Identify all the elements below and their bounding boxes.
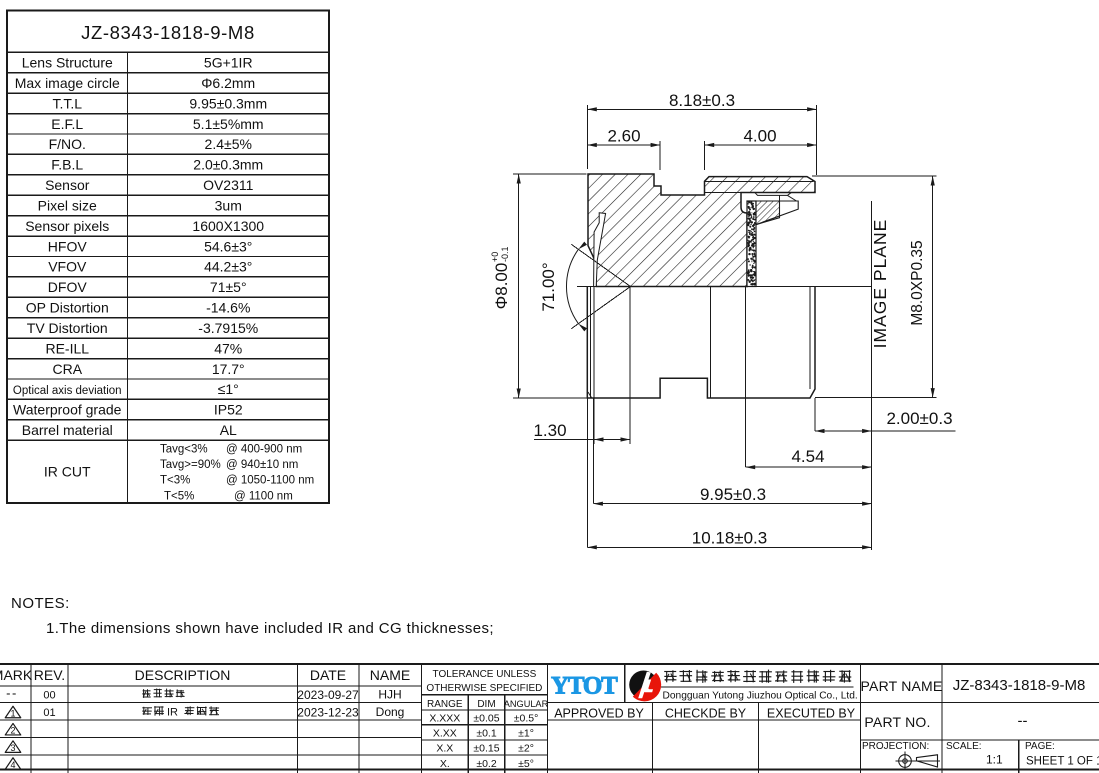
svg-text:1.30: 1.30 <box>533 421 566 440</box>
svg-text:Waterproof grade: Waterproof grade <box>13 402 122 418</box>
svg-text:Φ6.2mm: Φ6.2mm <box>201 75 255 91</box>
svg-text:PART NAME: PART NAME <box>861 678 943 694</box>
svg-text:SHEET 1 OF 1: SHEET 1 OF 1 <box>1026 756 1099 768</box>
svg-text:47%: 47% <box>214 340 242 356</box>
svg-text:3: 3 <box>10 743 15 753</box>
svg-text:9.95±0.3mm: 9.95±0.3mm <box>189 95 267 111</box>
svg-text:JZ-8343-1818-9-M8: JZ-8343-1818-9-M8 <box>953 677 1086 694</box>
svg-text:2.4±5%: 2.4±5% <box>205 136 252 152</box>
svg-text:@ 400-900 nm: @ 400-900 nm <box>226 444 302 456</box>
svg-text:F.B.L: F.B.L <box>51 157 83 173</box>
svg-text:E.F.L: E.F.L <box>51 116 83 132</box>
svg-text:+0: +0 <box>490 252 500 262</box>
svg-text:Dong: Dong <box>376 705 405 719</box>
svg-text:44.2±3°: 44.2±3° <box>204 259 252 275</box>
svg-text:2023-09-27: 2023-09-27 <box>297 688 359 702</box>
svg-text:PROJECTION:: PROJECTION: <box>862 741 929 752</box>
svg-text:HJH: HJH <box>378 688 401 702</box>
svg-text:NAME: NAME <box>370 667 410 683</box>
svg-text:Tavg>=90%: Tavg>=90% <box>160 459 221 471</box>
svg-text:-14.6%: -14.6% <box>206 300 250 316</box>
svg-text:CHECKDE BY: CHECKDE BY <box>665 707 747 721</box>
svg-text:--: -- <box>6 686 18 701</box>
svg-text:OV2311: OV2311 <box>203 177 254 193</box>
svg-text:T<5%: T<5% <box>164 490 194 502</box>
svg-text:17.7°: 17.7° <box>212 361 245 377</box>
svg-text:1600X1300: 1600X1300 <box>192 218 264 234</box>
svg-text:@ 940±10 nm: @ 940±10 nm <box>226 459 298 471</box>
svg-text:TOLERANCE UNLESS: TOLERANCE UNLESS <box>433 669 537 680</box>
svg-text:Max image circle: Max image circle <box>15 75 120 91</box>
svg-text:YTOT: YTOT <box>551 673 618 700</box>
svg-text:8.18±0.3: 8.18±0.3 <box>669 91 735 110</box>
svg-text:T<3%: T<3% <box>160 475 190 487</box>
svg-text:EXECUTED BY: EXECUTED BY <box>767 707 856 721</box>
svg-text:00: 00 <box>43 690 55 702</box>
svg-text:X.XX: X.XX <box>433 728 457 740</box>
svg-text:@ 1050-1100 nm: @ 1050-1100 nm <box>226 475 314 487</box>
svg-text:Sensor: Sensor <box>45 177 90 193</box>
svg-text:01: 01 <box>43 707 55 719</box>
svg-text:71±5°: 71±5° <box>210 279 247 295</box>
svg-text:-0.1: -0.1 <box>500 246 510 262</box>
svg-text:X.X: X.X <box>436 743 453 755</box>
svg-text:MARK: MARK <box>0 667 33 683</box>
svg-text:2.60: 2.60 <box>607 127 640 146</box>
svg-text:Sensor pixels: Sensor pixels <box>25 218 109 234</box>
svg-text:1: 1 <box>10 708 15 718</box>
svg-text:@ 1100 nm: @ 1100 nm <box>234 490 293 502</box>
svg-text:Optical axis deviation: Optical axis deviation <box>13 385 122 397</box>
svg-text:Lens Structure: Lens Structure <box>22 55 113 71</box>
svg-text:DESCRIPTION: DESCRIPTION <box>135 667 231 683</box>
svg-text:±5°: ±5° <box>518 758 534 770</box>
svg-text:4: 4 <box>10 760 15 770</box>
svg-text:±0.05: ±0.05 <box>473 713 499 725</box>
svg-text:Dongguan Yutong Jiuzhou Optica: Dongguan Yutong Jiuzhou Optical Co., Ltd… <box>663 691 858 702</box>
svg-text:2023-12-23: 2023-12-23 <box>297 706 359 720</box>
svg-text:IR: IR <box>167 707 178 719</box>
svg-text:IMAGE PLANE: IMAGE PLANE <box>870 219 890 349</box>
svg-text:54.6±3°: 54.6±3° <box>204 238 252 254</box>
svg-text:Φ8.00: Φ8.00 <box>492 263 511 310</box>
svg-text:AL: AL <box>220 422 237 438</box>
svg-text:71.00°: 71.00° <box>539 262 558 311</box>
svg-text:OP Distortion: OP Distortion <box>26 300 109 316</box>
svg-text:10.18±0.3: 10.18±0.3 <box>692 529 768 548</box>
svg-text:IP52: IP52 <box>214 402 243 418</box>
svg-text:Pixel size: Pixel size <box>38 197 97 213</box>
svg-text:±1°: ±1° <box>518 728 534 740</box>
svg-text:DIM: DIM <box>477 699 495 710</box>
svg-text:9.95±0.3: 9.95±0.3 <box>700 485 766 504</box>
svg-text:±0.1: ±0.1 <box>476 728 497 740</box>
svg-text:4.00: 4.00 <box>743 127 776 146</box>
svg-text:HFOV: HFOV <box>48 238 88 254</box>
svg-text:5G+1IR: 5G+1IR <box>204 55 253 71</box>
svg-text:F/NO.: F/NO. <box>49 136 86 152</box>
svg-text:JZ-8343-1818-9-M8: JZ-8343-1818-9-M8 <box>81 22 255 43</box>
svg-text:RANGE: RANGE <box>427 699 463 710</box>
svg-text:CRA: CRA <box>52 361 82 377</box>
svg-text:X.: X. <box>440 758 450 770</box>
svg-text:Barrel material: Barrel material <box>22 422 113 438</box>
svg-text:3um: 3um <box>215 197 242 213</box>
svg-text:SCALE:: SCALE: <box>946 741 982 752</box>
svg-text:-3.7915%: -3.7915% <box>198 320 258 336</box>
svg-text:M8.0XP0.35: M8.0XP0.35 <box>909 240 926 325</box>
svg-text:2.00±0.3: 2.00±0.3 <box>886 409 952 428</box>
svg-text:±0.5°: ±0.5° <box>514 713 539 725</box>
svg-text:DFOV: DFOV <box>48 279 88 295</box>
svg-text:T.T.L: T.T.L <box>52 95 82 111</box>
svg-text:X.XXX: X.XXX <box>429 713 460 725</box>
svg-text:5.1±5%mm: 5.1±5%mm <box>193 116 264 132</box>
svg-text:≤1°: ≤1° <box>218 381 239 397</box>
svg-text:RE-ILL: RE-ILL <box>45 340 89 356</box>
svg-text:TV Distortion: TV Distortion <box>27 320 108 336</box>
svg-text:2.0±0.3mm: 2.0±0.3mm <box>193 157 263 173</box>
svg-text:1.The dimensions shown have in: 1.The dimensions shown have included IR … <box>46 620 494 637</box>
svg-text:APPROVED BY: APPROVED BY <box>554 707 644 721</box>
svg-text:±2°: ±2° <box>518 743 534 755</box>
svg-text:4.54: 4.54 <box>791 447 824 466</box>
svg-text:REV.: REV. <box>34 667 65 683</box>
svg-text:±0.2: ±0.2 <box>476 758 497 770</box>
svg-text:PART NO.: PART NO. <box>864 714 930 730</box>
svg-text:ANGULAR: ANGULAR <box>504 699 549 709</box>
svg-text:DATE: DATE <box>310 667 346 683</box>
svg-text:Tavg<3%: Tavg<3% <box>160 444 208 456</box>
svg-text:1:1: 1:1 <box>986 753 1003 767</box>
svg-text:NOTES:: NOTES: <box>11 595 70 612</box>
svg-text:OTHERWISE SPECIFIED: OTHERWISE SPECIFIED <box>426 683 542 694</box>
svg-text:IR CUT: IR CUT <box>44 464 91 480</box>
svg-text:PAGE:: PAGE: <box>1025 741 1055 752</box>
svg-text:±0.15: ±0.15 <box>473 743 499 755</box>
svg-text:--: -- <box>1018 713 1028 730</box>
svg-text:VFOV: VFOV <box>48 259 87 275</box>
svg-text:2: 2 <box>10 725 15 735</box>
